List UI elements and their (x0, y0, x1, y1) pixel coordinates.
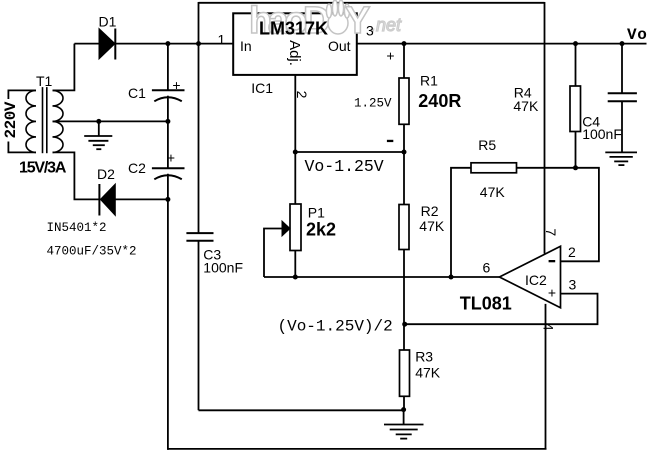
wire R5 right to pin 2 (517, 168, 599, 261)
svg-text:LM317K: LM317K (259, 19, 328, 39)
resistor R4 (570, 86, 581, 132)
svg-text:Out: Out (328, 38, 351, 54)
resistor R1 (399, 78, 409, 124)
wire center tap (53, 120, 168, 122)
svg-text:220V: 220V (2, 101, 20, 138)
wire transformer secondary bottom lead (53, 152, 100, 199)
svg-text:(Vo-1.25V)/2: (Vo-1.25V)/2 (278, 318, 393, 336)
wire primary bottom lead (8, 142, 36, 153)
svg-text:+: + (167, 150, 175, 166)
wire P1 branch (294, 152, 296, 277)
svg-text:TL081: TL081 (460, 294, 512, 314)
wire pin 4 down (545, 304, 547, 449)
ground (transformer center tap) (84, 121, 112, 149)
svg-text:In: In (240, 38, 252, 54)
svg-text:D2: D2 (97, 166, 115, 182)
svg-text:+: + (172, 77, 180, 93)
wire left rail (198, 2, 200, 233)
ground (C4) (605, 152, 637, 165)
wire bottom rail (168, 448, 547, 450)
svg-text:3: 3 (569, 277, 577, 293)
svg-text:4700uF/35V*2: 4700uF/35V*2 (47, 245, 137, 259)
svg-text:100nF: 100nF (203, 260, 243, 276)
svg-text:2k2: 2k2 (306, 220, 336, 240)
svg-text:.net: .net (371, 15, 402, 35)
wire op-amp output rail (264, 276, 499, 278)
wire transformer secondary top lead (53, 44, 75, 91)
svg-text:1: 1 (218, 32, 226, 48)
svg-text:+: + (386, 48, 394, 64)
wire right rail to pin 7 (544, 2, 546, 254)
wire D2 to junction (115, 198, 168, 200)
watermark haoDIY.net (249, 0, 402, 42)
svg-text:R5: R5 (478, 137, 496, 153)
potentiometer P1 wiper arrow (282, 221, 290, 236)
svg-text:47K: 47K (415, 365, 441, 381)
svg-text:240R: 240R (418, 91, 461, 111)
wire output rail pin 3 to Vo (357, 43, 647, 45)
svg-text:Vo: Vo (627, 26, 647, 44)
wire P1 wiper (264, 229, 283, 278)
wire R5 left (451, 168, 471, 277)
svg-text:R3: R3 (415, 349, 433, 365)
svg-text:2: 2 (568, 244, 576, 260)
svg-text:P1: P1 (308, 205, 325, 221)
wire top rail V+ (199, 2, 545, 4)
wire pin 3 loop (405, 294, 598, 325)
regulator IC1 box (233, 13, 357, 75)
diode D2 (99, 184, 115, 216)
svg-text:IC2: IC2 (525, 272, 547, 288)
svg-text:47K: 47K (480, 184, 506, 200)
svg-text:7: 7 (543, 228, 559, 236)
svg-text:Adj.: Adj. (286, 40, 303, 66)
potentiometer P1 (290, 204, 301, 251)
svg-text:T1: T1 (36, 73, 53, 89)
resistor R2 (399, 205, 409, 250)
svg-text:R2: R2 (421, 203, 439, 219)
transformer T1 (26, 87, 63, 153)
diode D1 (99, 29, 115, 60)
svg-text:47K: 47K (513, 98, 539, 114)
svg-text:100nF: 100nF (582, 126, 622, 142)
junction node dots (96, 41, 624, 412)
wire R2 R3 branch (403, 152, 405, 410)
svg-text:IN5401*2: IN5401*2 (47, 221, 107, 235)
svg-text:2: 2 (294, 91, 310, 99)
resistor R3 (400, 350, 410, 396)
svg-text:15V/3A: 15V/3A (19, 160, 67, 177)
wire C4 branch (621, 44, 623, 94)
wire R4 branch (575, 44, 577, 168)
op-amp IC2 triangle (499, 246, 560, 307)
capacitor C1 (152, 90, 185, 101)
wire Vo-1.25V node (295, 151, 404, 153)
minus op-amp (549, 260, 556, 262)
resistor R5 (471, 163, 517, 173)
svg-text:D1: D1 (99, 14, 117, 30)
minus R1 (387, 140, 393, 142)
svg-text:+: + (548, 285, 556, 301)
wire cap chain vertical (167, 44, 169, 91)
svg-text:R1: R1 (420, 73, 438, 89)
ground (main, at R3) (384, 410, 424, 439)
svg-text:3: 3 (366, 23, 374, 39)
svg-text:Vo-1.25V: Vo-1.25V (305, 157, 384, 176)
capacitor C3 (186, 233, 213, 241)
svg-text:IC1: IC1 (251, 80, 273, 96)
capacitor C2 (152, 168, 185, 179)
svg-text:6: 6 (483, 260, 491, 276)
capacitor C4 (608, 93, 637, 101)
wire R1 branch (403, 44, 405, 152)
svg-text:47K: 47K (419, 218, 445, 234)
svg-text:1.25V: 1.25V (354, 97, 392, 111)
wire bottom-left to ground (199, 409, 404, 411)
wire adj pin 2 (294, 75, 296, 152)
wire input rail (74, 43, 99, 45)
wire primary top lead (8, 90, 36, 99)
svg-text:C1: C1 (128, 85, 146, 101)
svg-text:4: 4 (541, 323, 557, 331)
svg-text:C2: C2 (128, 160, 146, 176)
